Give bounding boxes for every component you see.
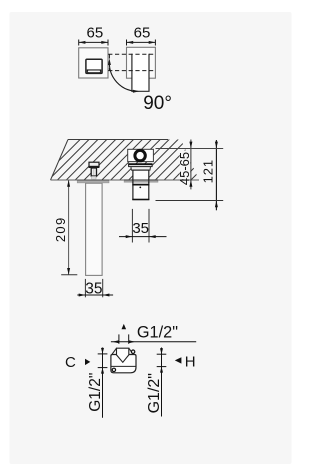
dimension 35 (spout tube width) bbox=[77, 279, 113, 298]
svg-text:65: 65 bbox=[87, 25, 104, 42]
dimension 65 (handle side view width) bbox=[127, 25, 156, 46]
dimension cold inlet port (left side) bbox=[98, 348, 108, 418]
spout tube (section) bbox=[86, 183, 103, 275]
svg-text:G1/2": G1/2" bbox=[87, 373, 104, 412]
finished wall surface line bbox=[51, 179, 200, 181]
dimension 209 (spout length below wall) bbox=[53, 180, 78, 275]
valve body (section) bbox=[133, 170, 149, 199]
dimension 121 (total valve depth) bbox=[156, 140, 224, 210]
dimension hot inlet port (right side) bbox=[157, 348, 167, 417]
svg-text:G1/2": G1/2" bbox=[137, 324, 178, 342]
wall left boundary line bbox=[51, 140, 69, 181]
svg-text:H: H bbox=[185, 354, 196, 371]
svg-text:90°: 90° bbox=[143, 93, 172, 114]
cartridge ring bbox=[135, 150, 145, 160]
outlet flow arrow (plan view) bbox=[122, 324, 127, 329]
handle lever rotated down (side view) bbox=[132, 53, 149, 91]
valve collar bbox=[131, 167, 151, 171]
svg-text:35: 35 bbox=[85, 281, 102, 298]
svg-text:121: 121 bbox=[201, 159, 216, 183]
wall section hatching bbox=[39, 139, 241, 181]
svg-text:45-65: 45-65 bbox=[177, 152, 192, 185]
spout escutcheon plate (edge view) bbox=[77, 180, 109, 183]
dashed construction lines between views bbox=[108, 54, 155, 70]
screw hole top-right (plan view) bbox=[131, 350, 134, 353]
dimension 65 (spout front view width) bbox=[79, 25, 108, 46]
dimension 35 (valve body width) bbox=[119, 209, 167, 243]
valve cartridge housing box bbox=[128, 149, 154, 161]
svg-text:G1/2": G1/2" bbox=[146, 373, 163, 413]
spout outlet (front view) bbox=[86, 59, 102, 73]
wall plate square (spout front view) bbox=[79, 48, 108, 78]
90 degree swing arc with arrowheads bbox=[108, 58, 140, 92]
svg-text:209: 209 bbox=[53, 217, 68, 243]
svg-text:C: C bbox=[65, 354, 76, 371]
dimension 45-65 (wall embedding depth range) bbox=[177, 140, 193, 190]
valve body mid line (plan view) bbox=[111, 365, 136, 367]
wall plate square (handle side view) bbox=[127, 47, 156, 78]
svg-text:35: 35 bbox=[132, 220, 149, 237]
arrow H inlet bbox=[175, 357, 182, 363]
svg-text:65: 65 bbox=[134, 25, 151, 42]
arrow C inlet bbox=[85, 359, 90, 365]
valve flange plate bbox=[128, 164, 152, 167]
valve escutcheon plate (edge view) bbox=[124, 179, 158, 184]
screw hole bottom-left (plan view) bbox=[112, 368, 115, 371]
concealed spout union in wall bbox=[89, 162, 100, 179]
wall top edge line bbox=[68, 139, 168, 141]
dimension G1/2 outlet port (plan view) bbox=[111, 324, 196, 344]
valve body divider and bottom edge bbox=[132, 185, 149, 200]
valve body outline (plan view) bbox=[111, 348, 136, 373]
outlet funnel (plan view) bbox=[117, 348, 129, 362]
